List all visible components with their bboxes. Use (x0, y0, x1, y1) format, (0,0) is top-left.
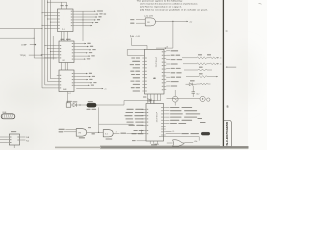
IC U6 (7, 134, 22, 145)
IC U2 (57, 41, 76, 63)
wire U4 left labels (130, 57, 140, 91)
wire U4 top-left jumper loop (127, 50, 144, 56)
svg-text:C12: C12 (196, 94, 199, 96)
svg-text:+5: +5 (104, 89, 106, 91)
node D5 label (132, 140, 146, 141)
wire G1 output (87, 127, 104, 134)
svg-text:F8: F8 (147, 22, 149, 24)
wire G4 output to +5v (155, 21, 192, 24)
IC U4 (142, 49, 166, 94)
resistor R6 (184, 67, 212, 71)
transistor Q2 (circle) (172, 90, 178, 106)
corner tick (259, 2, 262, 5)
wire U5 bottom row (159, 137, 199, 141)
svg-text:TP5(4): TP5(4) (20, 55, 26, 57)
node COMP (21, 44, 36, 47)
wire U2-U3 links (61, 63, 67, 71)
wire U5 CL row (166, 131, 175, 133)
sheet border line (222, 0, 224, 147)
bottom scan band (55, 146, 249, 149)
svg-text:26: 26 (166, 47, 168, 49)
svg-text:+5Vc: +5Vc (194, 141, 198, 143)
wire arrow from border (226, 66, 237, 67)
wire U2 top labels (61, 39, 71, 40)
IC U1 (55, 9, 75, 32)
wire U2 left pin connections (34, 45, 57, 58)
capacitor C12 (192, 89, 200, 98)
wire U3 left connections (bus elbows) (42, 79, 57, 88)
svg-text:(+5) 1/2S: (+5) 1/2S (144, 15, 153, 17)
delay line LT4 (166, 132, 210, 135)
node CMU / ENC labels (59, 129, 77, 133)
wire U5 right labels (166, 107, 200, 124)
svg-text:(1) To maintain this document: (1) To maintain this document in confide… (140, 3, 199, 6)
wire G2 output (113, 130, 141, 134)
wire G4 drop to U4 (156, 21, 173, 49)
or-gate G3 (154, 140, 197, 147)
svg-text:+5: +5 (220, 58, 222, 60)
wire U5 top pins (151, 100, 154, 103)
wire U1 top run labels (100, 10, 106, 14)
wire U4 bottom pins (124, 94, 161, 104)
svg-text:2: 2 (116, 131, 117, 133)
and-gate G2 (103, 130, 113, 140)
svg-text:P-1: P-1 (62, 29, 65, 31)
IC U3 (57, 70, 76, 92)
paper mottle (0, 8, 259, 147)
wire U6 left leads (0, 137, 7, 143)
node marks right of U5 (198, 118, 206, 123)
wire U4 right label rows (166, 50, 182, 86)
wire U3 output lines (76, 73, 96, 86)
wire +5V5 drop to U4 top (132, 38, 148, 50)
wire bead to bundle (96, 101, 124, 106)
resistor R5 (183, 63, 221, 66)
wire bus vertical lines (34, 0, 53, 88)
wire U6 right leads N.B / N.C (22, 137, 30, 143)
wire U2 output lines A4-A7 (76, 43, 96, 60)
svg-text:C: C (226, 29, 228, 33)
svg-text:The possessor agrees to the fo: The possessor agrees to the following: (137, 0, 184, 3)
svg-text:8H8: 8H8 (63, 89, 66, 91)
IC U4 internal marks (153, 57, 156, 80)
node TP5 (20, 54, 42, 57)
resistor R3 (box) (66, 101, 72, 107)
wire U3 bottom drop (68, 92, 71, 103)
wire G4 inputs (130, 19, 145, 24)
wire U3 +5 line (76, 88, 106, 91)
svg-text:uPB8421C: uPB8421C (155, 112, 157, 123)
svg-text:uPB8421C: uPB8421C (154, 57, 156, 68)
svg-text:6.1: 6.1 (105, 134, 107, 136)
part number box SJ-M70/280 (223, 121, 231, 147)
transistor Q3 (circle) (167, 96, 211, 101)
svg-text:B: B (227, 104, 229, 108)
wire crossing vertical (82, 11, 83, 41)
resistor R7 (186, 73, 218, 77)
IC U5 (144, 104, 166, 142)
wire vertical feed to G1 node (99, 107, 134, 132)
wire U1 top pins (47, 2, 68, 9)
resistor R4 (182, 54, 221, 59)
svg-text:F8: F8 (79, 133, 81, 135)
svg-text:COMP: COMP (21, 44, 27, 46)
wire U5 left labels (125, 109, 144, 134)
notes text block (137, 0, 209, 11)
svg-text:(3) Not to reveal or publish i: (3) Not to reveal or publish it in whole… (140, 8, 209, 11)
wire U6 bottom pin (13, 145, 15, 148)
svg-text:+5: +5 (220, 64, 222, 66)
wire U6 label (11, 131, 16, 132)
wire left-edge horizontals (0, 28, 43, 39)
svg-text:4.2: 4.2 (68, 93, 70, 95)
svg-text:(2) Not to reproduce or copy i: (2) Not to reproduce or copy it. (140, 6, 183, 9)
node 41 label (148, 99, 152, 100)
transistor Q1 (143, 94, 151, 103)
wire U1 output lines A0-A5 (75, 10, 102, 26)
and-gate G4 (F8) (144, 15, 155, 26)
paper background (0, 0, 267, 150)
and-gate G1 (76, 129, 87, 139)
wire U5 bottom pins (150, 141, 157, 145)
resistor R8 (197, 83, 211, 85)
svg-text:+5v: +5v (189, 21, 192, 23)
wire U1 left pin connections (42, 12, 56, 29)
svg-text:B2: B2 (63, 60, 65, 62)
ferrite bead FB1 (dark pill) (80, 101, 96, 110)
node +5-V5 label (130, 35, 140, 38)
svg-text:SJ-M70/280: SJ-M70/280 (225, 121, 229, 146)
svg-text:+5-V5: +5-V5 (135, 36, 140, 38)
wire U1 bottom pins (62, 32, 68, 42)
connector P1 (pill) (1, 112, 15, 119)
svg-text:CL: CL (172, 131, 174, 133)
diode D2 (186, 80, 197, 88)
diode D1 (71, 101, 81, 106)
